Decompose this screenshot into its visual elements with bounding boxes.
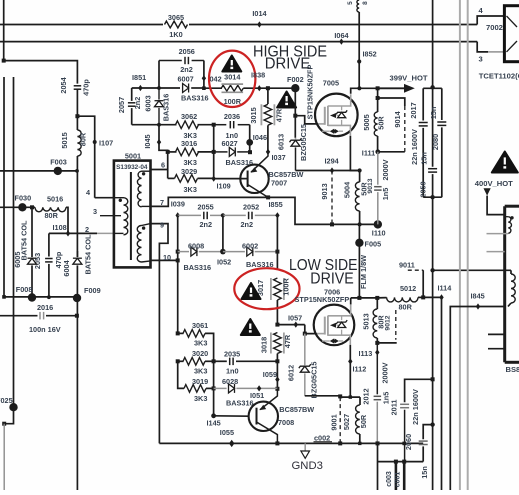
svg-text:15n: 15n: [420, 152, 429, 165]
svg-text:BAT54 COL: BAT54 COL: [83, 234, 92, 275]
label c002: [314, 433, 333, 442]
wire 2016 rail: [0, 315, 77, 317]
svg-text:I855: I855: [269, 200, 283, 209]
winding phase dot bottom: [142, 226, 145, 229]
svg-text:F002: F002: [287, 75, 304, 84]
svg-text:3K3: 3K3: [184, 185, 197, 194]
svg-text:2017: 2017: [409, 102, 418, 118]
wire caps top bar: [423, 87, 442, 89]
wire pin6 lead: [151, 160, 168, 169]
svg-text:I037: I037: [272, 153, 286, 162]
wire F030 rail: [0, 206, 35, 208]
warning triangle 400V: [492, 152, 518, 173]
wire c003 line: [386, 462, 396, 490]
label BAT54 COL right: [83, 234, 92, 275]
wire main vertical mid: [432, 197, 434, 490]
wire 5016 to I108: [66, 207, 68, 233]
svg-text:2055: 2055: [198, 203, 214, 212]
node F025: [0, 396, 18, 411]
node 6008 left junction: [176, 250, 180, 254]
wire gate row to 3014: [204, 87, 222, 89]
resistor 3017 100R: [256, 278, 291, 325]
svg-text:100R: 100R: [224, 97, 242, 106]
node pin10 C junction: [176, 258, 180, 262]
node 5013 bottom junction: [375, 341, 379, 345]
svg-text:S13932-04: S13932-04: [116, 164, 148, 171]
svg-text:I111: I111: [362, 149, 375, 158]
wire 6005 bottom lead: [31, 265, 33, 297]
wire c001 line: [395, 462, 405, 490]
wire left vertical B F025: [4, 77, 13, 424]
capacitor 2011 22n 1600V: [390, 379, 433, 461]
node I045: [143, 134, 161, 148]
svg-text:1K0: 1K0: [169, 30, 182, 39]
svg-text:7002: 7002: [486, 23, 503, 32]
node source junction: [358, 168, 362, 172]
svg-text:50R: 50R: [359, 414, 368, 428]
node I294: [325, 157, 340, 174]
node I845: [471, 291, 485, 309]
wire 6005 top lead: [31, 207, 33, 257]
svg-text:2052: 2052: [243, 203, 259, 212]
svg-text:BS8: BS8: [506, 365, 519, 374]
capacitor 2059 15n: [418, 152, 437, 197]
coupling 9011 dashed: [399, 261, 423, 298]
node 3017 bottom junction: [275, 323, 279, 327]
node 3019 right junction: [212, 386, 216, 390]
wire to I114: [423, 296, 441, 298]
node I851: [132, 73, 146, 91]
node 3015 top junction: [266, 86, 270, 90]
warning triangle 3018: [241, 319, 260, 335]
node 9014 tap: [376, 96, 380, 100]
winding BS8 bottom: [508, 270, 515, 306]
capacitor 2054 470p: [59, 76, 90, 95]
svg-text:I294: I294: [325, 157, 340, 166]
svg-text:6003: 6003: [143, 95, 152, 111]
svg-text:I039: I039: [171, 199, 185, 208]
svg-text:F009: F009: [84, 286, 101, 295]
svg-text:3014: 3014: [224, 72, 241, 81]
transformer BS8 box: [505, 206, 519, 374]
svg-text:6002: 6002: [242, 241, 258, 250]
transistor 7007 BC857BW: [240, 152, 303, 198]
node F009: [73, 286, 101, 302]
svg-text:47R: 47R: [283, 334, 292, 348]
svg-text:2035: 2035: [224, 350, 240, 359]
svg-text:6028: 6028: [222, 377, 238, 386]
node 3018 bottom junction: [275, 359, 279, 363]
svg-text:F008: F008: [16, 285, 33, 294]
wire 7006 gate jog: [305, 325, 325, 334]
node 2052 right: [275, 212, 279, 218]
net 400V_HOT: [475, 179, 513, 215]
wire BS8 stub4: [488, 348, 505, 350]
svg-text:9001: 9001: [329, 414, 338, 430]
winding phase dot left: [119, 199, 122, 202]
wire 6004 bottom lead: [76, 265, 78, 490]
svg-text:7008: 7008: [278, 418, 294, 427]
svg-text:1n5: 1n5: [381, 188, 390, 201]
node gate tap 7006: [303, 332, 307, 336]
warning triangle low circle: [242, 283, 261, 299]
capacitor 2036 1n0: [214, 112, 250, 140]
wire 2054 feed: [4, 61, 78, 84]
node drain junction: [357, 86, 361, 90]
svg-text:BAS316: BAS316: [184, 263, 212, 272]
svg-text:2000V: 2000V: [380, 362, 389, 383]
svg-text:I052: I052: [217, 258, 231, 267]
svg-text:FLM 1/8W: FLM 1/8W: [359, 255, 368, 289]
capacitor 2016 100n: [29, 303, 61, 334]
zener 6012 BZG05C15: [287, 334, 319, 399]
wire I845 row: [450, 307, 504, 491]
node 2060 top junction: [430, 422, 434, 426]
wire 3062 row: [132, 124, 214, 126]
capacitor 2055 2n2: [178, 203, 223, 229]
diode 6005 BAT54: [13, 252, 37, 268]
wire left vertical A: [3, 77, 5, 297]
svg-text:F003: F003: [50, 157, 67, 166]
node 6002 right junction: [275, 250, 279, 254]
wire 7005 gate jog: [295, 116, 325, 124]
svg-text:2n2: 2n2: [241, 220, 254, 229]
node I838: [251, 71, 265, 92]
svg-text:I112: I112: [353, 365, 367, 374]
svg-text:2011: 2011: [390, 400, 399, 416]
svg-text:BAS316: BAS316: [162, 94, 171, 122]
svg-text:6: 6: [161, 160, 165, 169]
node 3020 right junction: [212, 359, 216, 363]
wire 7006 gate row: [277, 324, 304, 326]
svg-text:9012: 9012: [384, 315, 391, 330]
svg-text:3020: 3020: [192, 349, 208, 358]
svg-text:9013: 9013: [367, 178, 374, 193]
node 2011 top junction: [431, 377, 435, 381]
node 7007 collector junction: [266, 195, 270, 199]
wire BS8 stub2: [487, 251, 505, 253]
svg-text:2054: 2054: [59, 76, 68, 93]
node F008: [2, 285, 51, 302]
svg-text:I055: I055: [220, 428, 234, 437]
capacitor 2012 1n5 2000V: [361, 343, 390, 444]
svg-text:I108: I108: [53, 223, 67, 232]
svg-text:BZG05C15: BZG05C15: [299, 124, 308, 161]
svg-text:I851: I851: [132, 73, 146, 82]
wire I045 vertical: [159, 125, 168, 179]
node gate tap 7005: [293, 114, 297, 118]
diode 6007 BAS316: [177, 74, 208, 102]
resistor 3019 3K3: [178, 361, 214, 403]
svg-text:BC857BW: BC857BW: [279, 405, 314, 414]
inductor 5005 50R: [362, 86, 386, 152]
wire I113 stub: [377, 342, 396, 344]
wire 5015 to F003: [76, 156, 78, 257]
wire 9014 link: [378, 98, 405, 106]
wire gray rail 1: [459, 0, 461, 490]
svg-text:9013: 9013: [320, 183, 329, 199]
wire BS8 stub3: [488, 333, 505, 335]
svg-text:5013: 5013: [362, 313, 371, 329]
highlight red circle high: [209, 51, 255, 107]
wire 2036 down leg: [249, 125, 251, 153]
ground GND3: [292, 443, 323, 471]
resistor 3014 100R: [221, 72, 243, 106]
label FLM 1/8W: [359, 255, 368, 289]
node 6027 right junction: [248, 150, 252, 154]
svg-text:6008: 6008: [188, 241, 204, 250]
svg-text:3029: 3029: [181, 167, 197, 176]
node I110: [372, 220, 386, 237]
node junction 6005 top: [30, 205, 34, 209]
node emitter junction: [275, 387, 279, 391]
svg-text:2080: 2080: [431, 134, 440, 150]
svg-text:80R: 80R: [79, 132, 88, 146]
node I109: [212, 176, 231, 191]
node 2011 cross: [402, 442, 406, 446]
node junction 2016: [75, 314, 79, 318]
svg-text:9011: 9011: [399, 261, 415, 270]
mosfet 7005 STP15NK50ZFP: [305, 64, 357, 136]
svg-text:I113: I113: [359, 349, 373, 358]
resistor 3062 3K3: [176, 112, 199, 140]
svg-text:100n 16V: 100n 16V: [29, 325, 61, 334]
diode 6003 BAS316: [143, 88, 170, 125]
svg-text:22n 1600V: 22n 1600V: [410, 129, 419, 165]
svg-text:2036: 2036: [224, 112, 240, 121]
winding secondary top: [137, 171, 150, 207]
node caps bottom junction: [430, 195, 434, 199]
wire pin7 I855 row: [151, 197, 378, 224]
svg-text:F025: F025: [0, 396, 13, 405]
svg-text:2n2: 2n2: [133, 97, 142, 110]
svg-text:STP15NK50ZFP: STP15NK50ZFP: [305, 64, 314, 119]
svg-text:042: 042: [210, 74, 222, 83]
winding phase dot top: [142, 172, 145, 175]
wire pin9 jog: [151, 221, 169, 444]
wire 3018 bottom row: [214, 360, 278, 362]
wire 7006 source: [349, 345, 351, 397]
svg-text:I114: I114: [438, 284, 453, 293]
wire 2053 bottom lead: [48, 264, 50, 297]
node I112: [348, 358, 366, 373]
svg-text:BZG05C15: BZG05C15: [309, 362, 318, 399]
svg-text:TCET1102(G: TCET1102(G: [479, 71, 519, 80]
inductor 5012 80R: [377, 284, 423, 311]
svg-text:2000V: 2000V: [381, 159, 390, 180]
wire D vertical low: [213, 361, 215, 416]
title HIGH SIDE DRIVE: [253, 43, 327, 72]
transformer core: [130, 172, 132, 260]
wire gray bottom left: [3, 424, 5, 490]
wire c row: [378, 461, 424, 463]
svg-text:9014: 9014: [393, 110, 402, 127]
svg-text:3K3: 3K3: [184, 158, 197, 167]
capacitor 2051 1n5 2000V: [374, 152, 390, 225]
node I108: [53, 223, 71, 237]
wire I111 row: [378, 151, 405, 153]
wire rail1 to opto pin4: [477, 16, 504, 25]
node I852: [357, 50, 377, 64]
svg-text:BAS316: BAS316: [181, 93, 209, 102]
wire pin10 row: [151, 253, 178, 262]
capacitor 2060 15n: [404, 425, 432, 479]
wire main vertical 433 top: [432, 0, 434, 167]
node 5012 right junction: [421, 295, 425, 299]
inductor 5015 80R: [60, 130, 87, 156]
svg-text:5016: 5016: [47, 194, 63, 203]
svg-text:15n: 15n: [429, 107, 438, 120]
capacitor 2035 1n0: [224, 350, 240, 376]
node 6003 top junction: [157, 86, 161, 90]
capacitor 2056 2n2: [159, 47, 204, 74]
node I111: [362, 149, 380, 158]
node I855: [269, 200, 283, 209]
svg-text:F005: F005: [365, 239, 382, 248]
svg-text:c003: c003: [386, 471, 393, 487]
svg-text:3K3: 3K3: [194, 339, 207, 348]
svg-text:3K3: 3K3: [194, 394, 207, 403]
warning triangle high: [222, 56, 241, 72]
wire 2012 gnd leg: [377, 443, 379, 490]
svg-text:80R: 80R: [399, 302, 413, 311]
node 3016 left junction: [166, 150, 170, 154]
resistor 3016 3K3: [168, 139, 214, 167]
coupling 9014 dashed: [393, 106, 405, 152]
wire top rail 2: [0, 41, 477, 43]
node I059: [263, 370, 280, 383]
wire F008 rail: [4, 296, 77, 298]
wire 2054 bottom: [76, 89, 78, 130]
wire D2 vertical: [213, 125, 215, 179]
svg-text:2n2: 2n2: [200, 220, 213, 229]
svg-text:F030: F030: [15, 194, 32, 203]
node I064: [334, 31, 349, 45]
node source bottom junction: [358, 222, 362, 226]
inductor 5013 80R: [362, 298, 392, 343]
svg-text:2n2: 2n2: [180, 65, 193, 74]
transistor 7008 BC857BW: [249, 389, 315, 444]
wire 2056 right leg: [203, 61, 205, 89]
svg-text:6007: 6007: [177, 74, 193, 83]
svg-text:GND3: GND3: [292, 460, 323, 472]
node F030: [15, 194, 32, 212]
node I046: [246, 133, 267, 146]
winding BS8 top: [487, 216, 514, 234]
wire 2053 top lead: [48, 233, 50, 256]
coupling 9001 dashed: [329, 397, 340, 443]
diode 6004 BAT54: [62, 258, 82, 276]
node 042: [202, 74, 222, 90]
wire left stub vertical: [3, 0, 5, 61]
svg-text:5012: 5012: [400, 284, 416, 293]
wire rail2 to opto pin3: [477, 42, 504, 52]
svg-text:I838: I838: [251, 71, 265, 80]
node 5013 top junction: [375, 296, 379, 300]
svg-text:3062: 3062: [181, 112, 197, 121]
node I051: [250, 385, 264, 400]
resistor 3065 1K0: [165, 13, 188, 39]
wire bottom gnd row: [159, 442, 423, 444]
resistor 3061 3K3: [176, 321, 214, 361]
svg-text:I110: I110: [372, 228, 386, 237]
node corner junction: [2, 422, 6, 426]
svg-text:15n: 15n: [420, 466, 429, 479]
svg-text:2056: 2056: [179, 47, 195, 56]
wire 6012 bottom row: [305, 396, 360, 397]
wire pin3 stub: [93, 207, 121, 216]
svg-text:3: 3: [479, 54, 483, 63]
svg-text:7: 7: [160, 198, 164, 207]
node 7008 collector junction: [275, 441, 279, 445]
wire C vertical: [177, 215, 179, 333]
wire F003 rail: [0, 170, 77, 172]
svg-text:3018: 3018: [260, 337, 269, 353]
wire to I107 branch: [77, 116, 94, 198]
wire caps bottom bar: [423, 196, 442, 198]
node I114: [438, 284, 453, 301]
wire 2056 left leg: [158, 61, 160, 89]
svg-text:47R: 47R: [275, 108, 284, 122]
node F005 bottom junction: [357, 296, 361, 300]
svg-text:6004: 6004: [62, 259, 71, 276]
node c003 junction: [394, 460, 398, 464]
svg-text:I107: I107: [99, 139, 113, 148]
svg-text:10: 10: [163, 253, 171, 262]
wire I114 vertical: [441, 297, 443, 490]
wire 7008 base row: [214, 415, 249, 417]
svg-text:DRIVE: DRIVE: [265, 55, 311, 72]
wire 7005 source: [350, 136, 359, 171]
title LOW SIDE DRIVE: [289, 257, 358, 288]
svg-text:STP15NK50ZFP: STP15NK50ZFP: [295, 295, 350, 304]
winding primary left: [114, 198, 128, 235]
highlight red circle low: [234, 268, 299, 309]
node 9001 bottom junction: [338, 441, 361, 445]
svg-text:3065: 3065: [168, 13, 184, 22]
svg-text:2057: 2057: [117, 97, 126, 113]
svg-text:2012: 2012: [361, 388, 370, 404]
wire gray rail 2: [467, 0, 469, 490]
label BAT54 COL left: [19, 220, 28, 261]
svg-text:3015: 3015: [249, 107, 258, 123]
node 2055 junction: [221, 213, 225, 217]
zener 6013 BZG05C15: [277, 124, 308, 170]
node 3062 right junction: [212, 123, 216, 127]
wire 9011 row right: [433, 269, 511, 271]
node I113: [359, 349, 380, 358]
svg-text:BAT54 COL: BAT54 COL: [19, 220, 28, 261]
svg-text:1n0: 1n0: [226, 367, 239, 376]
wire 7006 drain: [350, 298, 352, 305]
inductor 5004 50R: [342, 171, 374, 225]
svg-text:9: 9: [160, 221, 164, 230]
svg-text:2059: 2059: [418, 181, 427, 197]
node F003: [50, 157, 79, 175]
wire emitter vertical: [276, 361, 278, 389]
warning triangle 47R: [277, 92, 296, 108]
diode 6002 BAS316: [223, 241, 278, 268]
svg-text:7007: 7007: [271, 178, 287, 187]
node 3016 right junction: [212, 150, 216, 154]
svg-text:5001: 5001: [125, 151, 141, 160]
svg-text:6013: 6013: [277, 134, 286, 150]
svg-text:I145: I145: [207, 418, 221, 427]
node I107: [93, 139, 114, 148]
node I039: [171, 199, 185, 218]
winding secondary bottom: [137, 224, 150, 262]
inductor 5016 80R: [35, 194, 66, 220]
